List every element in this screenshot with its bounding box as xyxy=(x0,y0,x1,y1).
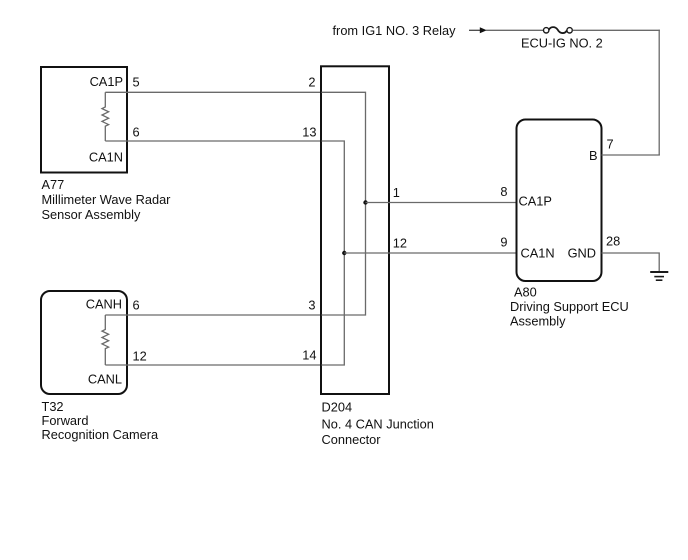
ground symbol xyxy=(650,272,668,280)
svg-text:8: 8 xyxy=(500,184,507,199)
svg-text:6: 6 xyxy=(133,125,140,140)
junction node on CA1P bus xyxy=(363,200,367,204)
svg-text:Recognition Camera: Recognition Camera xyxy=(42,427,160,442)
wire internal bus CA1P (pin2 to pin3) xyxy=(322,92,366,315)
svg-text:Connector: Connector xyxy=(322,432,382,447)
svg-text:CANL: CANL xyxy=(88,372,122,387)
ECU box A80 xyxy=(517,120,602,282)
svg-text:ECU-IG NO. 2: ECU-IG NO. 2 xyxy=(521,36,603,51)
wire A80 pin28 (GND) to ground xyxy=(602,253,660,272)
junction node on CA1N bus xyxy=(342,251,346,255)
junction connector box D204 xyxy=(321,66,389,394)
svg-text:Forward: Forward xyxy=(42,413,89,428)
wire T32 pin6 to D204 pin3 (CANH) xyxy=(105,314,321,316)
svg-text:Assembly: Assembly xyxy=(510,314,566,329)
svg-text:CA1P: CA1P xyxy=(519,193,552,208)
svg-text:CA1N: CA1N xyxy=(521,246,555,261)
svg-text:B: B xyxy=(589,148,598,163)
svg-text:9: 9 xyxy=(500,235,507,250)
svg-text:12: 12 xyxy=(393,236,407,251)
svg-text:3: 3 xyxy=(308,298,315,313)
svg-text:D204: D204 xyxy=(322,400,353,415)
connector box T32 xyxy=(41,291,127,394)
svg-text:CA1P: CA1P xyxy=(90,74,123,89)
svg-text:A80: A80 xyxy=(514,285,537,300)
svg-text:Sensor Assembly: Sensor Assembly xyxy=(42,207,141,222)
wire IG1 relay to fuse xyxy=(486,29,543,31)
wire internal bus CA1N (pin13 to pin14) xyxy=(322,141,345,365)
svg-text:CA1N: CA1N xyxy=(89,149,123,164)
arrow from IG1 NO. 3 Relay xyxy=(469,27,487,33)
svg-text:12: 12 xyxy=(133,349,147,364)
svg-text:1: 1 xyxy=(393,185,400,200)
fuse ECU-IG NO. 2 xyxy=(544,27,573,33)
wire D204 pin1 to A80 pin8 (CA1P) xyxy=(366,202,517,204)
wire fuse to top-right corner xyxy=(573,29,660,31)
connector box A77 xyxy=(41,67,127,173)
svg-text:GND: GND xyxy=(568,246,596,261)
svg-text:6: 6 xyxy=(133,298,140,313)
svg-text:Driving Support ECU: Driving Support ECU xyxy=(510,299,629,314)
resistor (terminating, inside A77) xyxy=(102,92,109,141)
resistor (terminating, inside T32) xyxy=(102,315,109,365)
svg-text:Millimeter Wave Radar: Millimeter Wave Radar xyxy=(42,192,172,207)
wire A80 pin7 (B) to ECU-IG supply xyxy=(602,154,660,156)
svg-text:T32: T32 xyxy=(42,399,64,414)
svg-text:from IG1 NO. 3 Relay: from IG1 NO. 3 Relay xyxy=(333,23,457,38)
wire vertical down to pin 7 of A80 xyxy=(658,30,660,155)
svg-text:13: 13 xyxy=(302,125,316,140)
svg-text:14: 14 xyxy=(302,348,316,363)
wire A77 pin6 to D204 pin13 (CA1N) xyxy=(105,140,321,142)
svg-text:5: 5 xyxy=(133,75,140,90)
svg-text:2: 2 xyxy=(308,75,315,90)
svg-text:CANH: CANH xyxy=(86,297,122,312)
svg-text:7: 7 xyxy=(607,137,614,152)
wire A77 pin5 to D204 pin2 (CA1P) xyxy=(105,91,321,93)
wire T32 pin12 to D204 pin14 (CANL) xyxy=(105,364,321,366)
svg-text:A77: A77 xyxy=(42,177,65,192)
svg-text:No. 4 CAN Junction: No. 4 CAN Junction xyxy=(322,416,434,431)
wire D204 pin12 to A80 pin9 (CA1N) xyxy=(344,252,516,254)
svg-text:28: 28 xyxy=(606,234,620,249)
